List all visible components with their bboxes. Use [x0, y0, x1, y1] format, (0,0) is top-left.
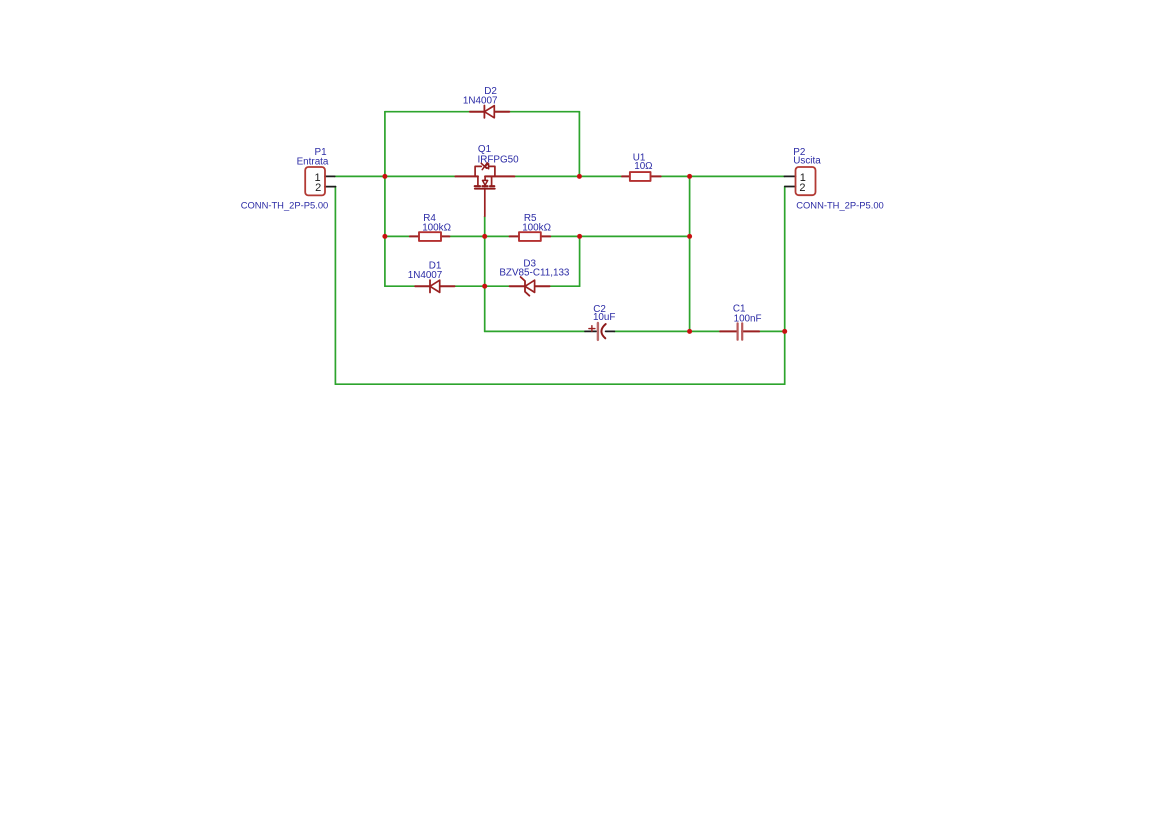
connector P2: [784, 167, 815, 195]
diode D1 1N4007: [415, 280, 454, 292]
svg-text:1N4007: 1N4007: [463, 95, 498, 106]
junction node gate D-row: [482, 284, 487, 289]
wire P2 pin2 rail down: [784, 187, 786, 385]
connector P1: [305, 167, 335, 195]
wire D-row D1 to D3: [455, 285, 510, 287]
svg-text:BZV85-C11,133: BZV85-C11,133: [499, 267, 570, 278]
svg-text:2: 2: [315, 182, 321, 194]
svg-text:IRFPG50: IRFPG50: [478, 154, 520, 165]
wire R-row left: [385, 235, 410, 237]
svg-text:2: 2: [799, 182, 805, 194]
wire C-row to C2: [485, 330, 585, 332]
zener diode D3: [510, 277, 550, 296]
junction node left R-row: [382, 234, 387, 239]
svg-text:CONN-TH_2P-P5.00: CONN-TH_2P-P5.00: [796, 199, 884, 210]
resistor R4: [410, 232, 450, 241]
wire D3 to right corner: [550, 285, 580, 287]
resistor U1: [622, 172, 661, 181]
transistor Q1 IRFPG50: [455, 163, 514, 217]
wire main row P1 to Q1: [335, 175, 456, 177]
wire gate vertical down to C-row: [484, 216, 486, 331]
wire P1 pin2 down: [334, 187, 336, 385]
wire top loop horizontal: [385, 111, 580, 113]
wire left rail to D1: [385, 285, 415, 287]
svg-text:1N4007: 1N4007: [408, 270, 443, 281]
junction node P1-D2: [382, 174, 387, 179]
junction node U1-right: [687, 174, 692, 179]
wire main row Q1 to U1: [514, 175, 622, 177]
junction node Q1-D2: [577, 174, 582, 179]
wire right rail vertical: [689, 176, 691, 331]
svg-text:CONN-TH_2P-P5.00: CONN-TH_2P-P5.00: [241, 200, 329, 211]
svg-text:100nF: 100nF: [734, 313, 762, 324]
wire main row U1 to P2: [661, 175, 785, 177]
junction node right rail R-row: [687, 234, 692, 239]
junction node C1 right: [782, 329, 787, 334]
svg-text:Uscita: Uscita: [793, 155, 821, 166]
svg-text:100kΩ: 100kΩ: [422, 222, 451, 233]
wire C-row right of C1: [759, 330, 785, 332]
wire right top rail vertical: [578, 112, 580, 177]
resistor R5: [510, 232, 551, 241]
wire bottom: [335, 383, 784, 385]
capacitor C1 100nF: [720, 323, 759, 339]
diode D2 1N4007: [470, 106, 509, 118]
svg-text:10Ω: 10Ω: [634, 161, 652, 172]
capacitor C2 10uF polarized: [585, 323, 614, 340]
junction node right rail C-row: [687, 329, 692, 334]
wire vertical D-row corner up to R-row: [579, 236, 581, 286]
wire left rail vertical: [384, 112, 386, 287]
wire R-row between R4 R5: [449, 235, 509, 237]
svg-text:10uF: 10uF: [593, 312, 616, 323]
svg-text:100kΩ: 100kΩ: [522, 222, 551, 233]
junction node gate R-row: [482, 234, 487, 239]
junction node R5-right: [577, 234, 582, 239]
svg-text:Entrata: Entrata: [297, 156, 329, 167]
wire R-row right: [550, 235, 689, 237]
wire C-row C2 to C1: [614, 330, 720, 332]
